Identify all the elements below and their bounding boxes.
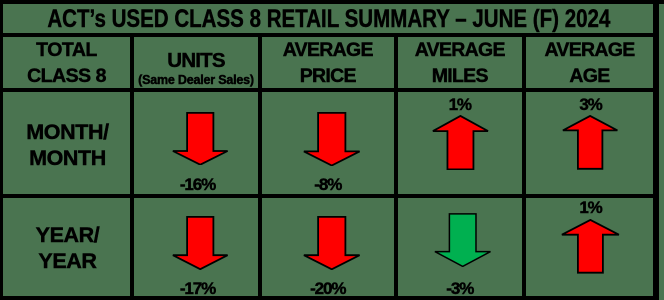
label -20% year/year average price <box>262 280 394 297</box>
table outer top border <box>0 0 664 4</box>
table outer left border <box>0 0 3 300</box>
label -17% year/year units <box>136 280 260 297</box>
horizontal rule under month/month row <box>3 194 653 198</box>
arrow up red: month/month average miles <box>432 115 489 170</box>
label 3% month/month average age <box>527 96 654 113</box>
arrow down red: month/month average price <box>303 112 361 166</box>
vertical rule col1/col2 <box>130 33 134 296</box>
label -3% year/year average miles <box>398 280 523 297</box>
title text <box>47 7 581 32</box>
arrow down red: month/month units <box>172 112 229 166</box>
horizontal rule under header row <box>3 88 653 92</box>
arrow down red: year/year units <box>172 216 229 270</box>
label -8% month/month average price <box>262 176 394 193</box>
label 1% year/year average age <box>527 199 654 216</box>
header cell TOTAL CLASS 8 <box>3 37 130 89</box>
label -16% month/month units <box>136 176 260 193</box>
row label YEAR/YEAR <box>4 223 131 275</box>
label 1% month/month average miles <box>398 96 523 113</box>
arrow down red: year/year average price <box>303 216 361 270</box>
header cell AVERAGE MILES <box>398 38 523 90</box>
horizontal rule under title row <box>3 33 653 37</box>
header cell AVERAGE AGE <box>526 38 653 90</box>
header cell UNITS subtitle (Same Dealer Sales) <box>134 74 258 87</box>
arrow up red: month/month average age <box>562 115 618 170</box>
table outer right border <box>653 0 659 300</box>
vertical rule col4/col5 <box>522 33 526 296</box>
vertical rule col3/col4 <box>394 33 398 296</box>
arrow down green: year/year average miles <box>434 213 491 267</box>
header cell AVERAGE PRICE <box>262 38 394 90</box>
arrow up red: year/year average age <box>561 219 620 274</box>
vertical rule col2/col3 <box>258 33 262 296</box>
row label MONTH/MONTH <box>4 120 131 172</box>
table outer bottom border <box>0 296 658 300</box>
header cell UNITS <box>134 51 258 72</box>
